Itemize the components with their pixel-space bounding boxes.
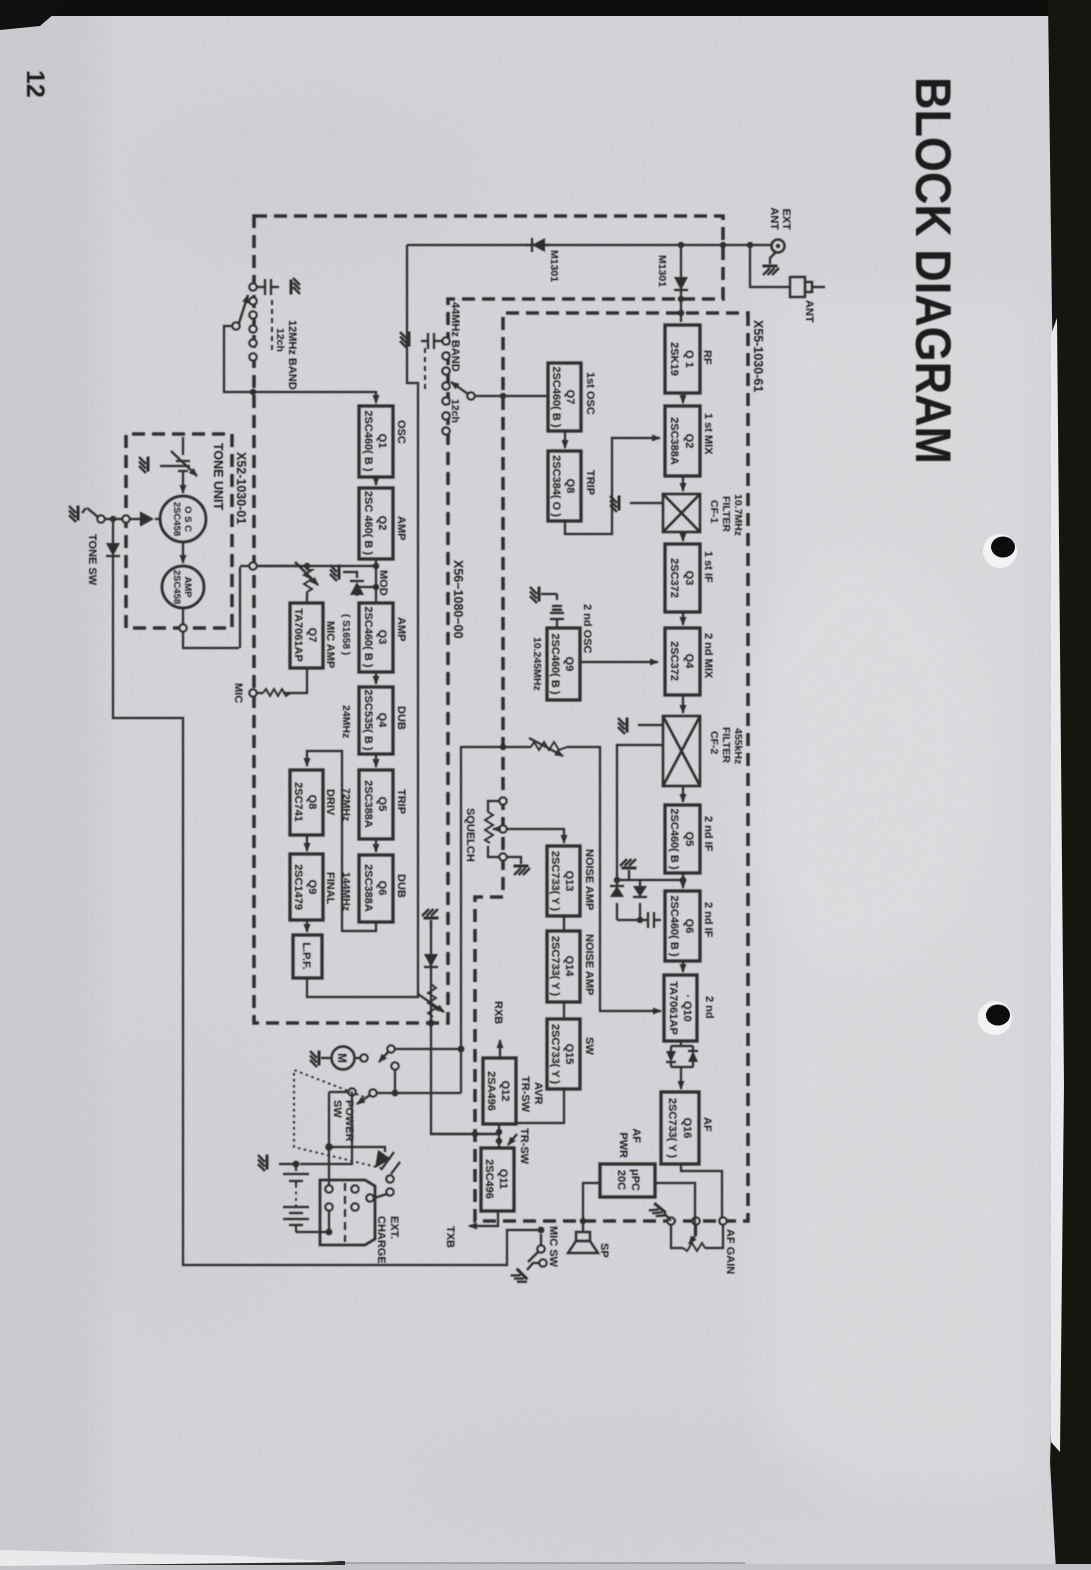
svg-text:AF: AF xyxy=(630,1128,642,1143)
block Q5 TRIP (tx) xyxy=(359,770,393,839)
svg-text:Q5: Q5 xyxy=(683,832,695,847)
modulator diode to ground xyxy=(350,581,376,596)
svg-text:2 nd IF: 2 nd IF xyxy=(702,816,714,852)
svg-text:SP: SP xyxy=(598,1243,610,1258)
capacitor + ground at 12MHz switch xyxy=(257,279,279,295)
top black scan edge xyxy=(0,0,1091,16)
svg-text:RXB: RXB xyxy=(492,1001,504,1024)
svg-text:FILTER: FILTER xyxy=(720,496,732,532)
svg-text:Q6: Q6 xyxy=(683,919,695,934)
wire Q1 to Q2 xyxy=(682,393,684,403)
svg-text:2SC741: 2SC741 xyxy=(292,782,304,822)
node ANT branch xyxy=(747,242,753,248)
transistor AMP 2SC458 xyxy=(162,566,204,608)
svg-text:Q8: Q8 xyxy=(306,795,318,810)
svg-text:AMP: AMP xyxy=(395,617,407,641)
svg-text:12MHz BAND: 12MHz BAND xyxy=(286,320,298,390)
12MHz band switch contacts xyxy=(249,283,256,360)
ganged-switch dashed link 44MHz xyxy=(424,348,426,391)
filter CF-1 xyxy=(663,494,700,532)
right dark binder strip xyxy=(1048,0,1091,1570)
svg-text:· Q10: · Q10 xyxy=(681,994,693,1022)
white page edge highlight xyxy=(1051,318,1064,1452)
dashed unit box X55-1030-61 (receiver unit) xyxy=(475,313,748,1221)
ganged-switch dashed link 12MHz xyxy=(271,300,273,354)
svg-text:SW: SW xyxy=(331,1100,343,1118)
svg-text:Q13: Q13 xyxy=(563,871,575,892)
diode on power line xyxy=(424,954,438,967)
svg-text:AF: AF xyxy=(701,1117,713,1132)
svg-text:TXB: TXB xyxy=(444,1226,456,1248)
squelch pot terminals on dashed edge xyxy=(499,797,506,860)
wire Q15 to Q12 xyxy=(516,1089,564,1123)
svg-text:M1301: M1301 xyxy=(548,250,560,282)
svg-text:2SC460( B ): 2SC460( B ) xyxy=(550,366,562,427)
long tone line to MIC SW xyxy=(113,519,538,1265)
svg-text:2SC388A: 2SC388A xyxy=(668,417,680,465)
svg-text:2SC496: 2SC496 xyxy=(483,1159,495,1199)
block Q9 2nd OSC xyxy=(547,628,580,700)
block Q6 DUB (tx) xyxy=(359,855,393,922)
diode on tone line xyxy=(106,543,120,556)
svg-text:20C: 20C xyxy=(615,1170,627,1190)
svg-text:2 nd MIX: 2 nd MIX xyxy=(702,633,714,679)
ground near diode pair xyxy=(628,870,630,880)
svg-text:455kHz: 455kHz xyxy=(732,728,744,764)
block Q14 NOISE AMP xyxy=(547,931,580,1002)
bottom page edge xyxy=(0,1564,1091,1570)
squelch line to Q10 xyxy=(500,744,506,750)
tone input terminal on box bottom edge xyxy=(122,515,129,522)
battery cells xyxy=(283,1164,309,1185)
svg-text:L.P.F.: L.P.F. xyxy=(300,942,312,969)
dashed tone unit box X52-1030-01 xyxy=(126,434,232,628)
block Q13 NOISE AMP xyxy=(547,846,580,916)
svg-text:Q 1: Q 1 xyxy=(683,350,695,368)
12MHz selector lever xyxy=(232,322,239,329)
svg-text:Q12: Q12 xyxy=(499,1081,511,1102)
svg-text:Q3: Q3 xyxy=(376,630,388,645)
svg-text:2SK19: 2SK19 xyxy=(668,342,680,376)
filter CF-2 xyxy=(663,716,700,786)
svg-text:FILTER: FILTER xyxy=(720,727,732,763)
wire Q8 injection to Q2 xyxy=(565,438,660,534)
wire Q1 to Q2 (tx) xyxy=(375,477,377,485)
resistor with arrow on power line xyxy=(428,984,436,1017)
svg-text:M: M xyxy=(335,1053,347,1063)
wire 44MHz lever to Q7 xyxy=(474,395,548,397)
svg-text:Q2: Q2 xyxy=(376,516,388,531)
svg-text:TRIP: TRIP xyxy=(395,789,407,814)
TX output line from LPF to antenna bus xyxy=(307,245,418,997)
svg-text:CHARGE: CHARGE xyxy=(375,1216,387,1264)
svg-text:44MHz BAND: 44MHz BAND xyxy=(449,302,461,372)
block Q2 1st MIX xyxy=(665,406,700,476)
wire battery loop to plug xyxy=(296,1211,329,1232)
svg-text:O S C: O S C xyxy=(182,506,193,532)
speaker SP xyxy=(582,1221,584,1232)
soft page shading xyxy=(0,0,100,1570)
svg-text:TA7061AP: TA7061AP xyxy=(292,608,304,662)
block AF PWR uPC20C xyxy=(600,1164,655,1197)
motor M xyxy=(360,1054,367,1061)
wire power sw to battery xyxy=(300,1092,352,1164)
svg-text:Q6: Q6 xyxy=(376,881,388,896)
svg-text:CF-2: CF-2 xyxy=(708,731,720,754)
svg-text:2 nd OSC: 2 nd OSC xyxy=(581,604,593,654)
wire mod tap down from chain xyxy=(257,565,376,567)
RXB arrow xyxy=(499,1040,501,1058)
block Q12 AVR TR-SW xyxy=(483,1058,516,1124)
svg-text:AMP: AMP xyxy=(182,576,193,598)
svg-text:PWR: PWR xyxy=(617,1132,629,1158)
wire Q4 to Q5 (tx) xyxy=(375,754,377,767)
svg-text:NOISE AMP: NOISE AMP xyxy=(583,849,595,910)
svg-text:Q14: Q14 xyxy=(563,956,575,978)
wire squelch edge to power line xyxy=(461,747,503,1093)
uPC input from AF GAIN wiper xyxy=(655,1183,696,1236)
svg-text:2SC535( B ): 2SC535( B ) xyxy=(362,689,374,750)
svg-text:2SC388A: 2SC388A xyxy=(362,780,374,828)
svg-text:2SC460( B ): 2SC460( B ) xyxy=(668,895,680,956)
svg-text:10.7MHz: 10.7MHz xyxy=(732,494,744,536)
ground at EXT ANT xyxy=(770,252,776,264)
wire Q12 to Q11 with junctions xyxy=(498,1124,500,1148)
svg-text:FINAL: FINAL xyxy=(324,872,336,905)
svg-text:AVR: AVR xyxy=(532,1082,544,1104)
dashed unit box X56-1080-00 with antenna column xyxy=(254,216,723,1023)
svg-text:2SC458: 2SC458 xyxy=(171,570,182,604)
svg-text:Q1: Q1 xyxy=(376,434,388,449)
svg-text:Q7: Q7 xyxy=(564,390,576,405)
svg-text:2SC372: 2SC372 xyxy=(668,558,680,598)
svg-text:2SC384( O ): 2SC384( O ) xyxy=(550,455,562,517)
AF GAIN terminals xyxy=(667,1217,726,1224)
block Q4 DUB (tx) xyxy=(359,687,393,754)
svg-text:2SA496: 2SA496 xyxy=(485,1071,497,1111)
svg-text:TR-SW: TR-SW xyxy=(518,1128,530,1165)
svg-text:OSC: OSC xyxy=(395,420,407,444)
svg-text:2 nd IF: 2 nd IF xyxy=(702,902,714,938)
Q16 output wire to AF GAIN xyxy=(681,1164,722,1218)
svg-text:MIC SW: MIC SW xyxy=(547,1226,559,1268)
44MHz band switch contacts xyxy=(442,337,449,434)
capacitor + ground at 44MHz switch xyxy=(421,333,442,349)
svg-text:TA7061AP: TA7061AP xyxy=(667,981,679,1035)
svg-text:Q4: Q4 xyxy=(376,713,388,729)
wire Q2 to Q3 (tx) with MOD taps xyxy=(375,559,377,603)
svg-text:Q4: Q4 xyxy=(683,654,695,670)
MIC SW xyxy=(538,1227,545,1234)
block Q7 1st OSC xyxy=(548,363,581,431)
wire squelch to Q13 xyxy=(506,829,564,843)
svg-text:2SC458: 2SC458 xyxy=(171,502,182,536)
svg-text:2SC733( Y ): 2SC733( Y ) xyxy=(549,936,561,996)
block Q3 1st IF xyxy=(665,544,700,612)
svg-text:EXT: EXT xyxy=(780,209,792,231)
wire 12MHz lever to Q1 osc xyxy=(224,326,376,403)
punch hole 1 xyxy=(983,534,1017,568)
block Q4 2nd MIX xyxy=(665,628,700,695)
svg-text:NOISE AMP: NOISE AMP xyxy=(583,934,595,995)
svg-text:DRIV: DRIV xyxy=(324,789,336,816)
ground at CF-1 xyxy=(630,502,663,504)
crystal at Q9 xyxy=(550,594,564,628)
svg-text:24MHz: 24MHz xyxy=(340,705,352,738)
ground at squelch xyxy=(506,857,521,864)
svg-text:TRIP: TRIP xyxy=(584,470,596,495)
EXT ANT jack xyxy=(772,240,785,253)
svg-text:ANT: ANT xyxy=(803,300,815,323)
svg-text:ANT: ANT xyxy=(768,207,780,230)
diode M1301 (to receiver) xyxy=(674,277,688,290)
ground in tone unit xyxy=(160,465,176,467)
svg-text:Q2: Q2 xyxy=(683,434,695,449)
wire Q5 to Q6 xyxy=(682,873,684,888)
node box corner crossing xyxy=(720,242,726,248)
wire CF-2 to Q5 xyxy=(682,786,684,802)
wire Q6 to Q8 driver loop xyxy=(307,751,376,931)
svg-text:X52-1030-01: X52-1030-01 xyxy=(234,452,248,524)
block Q1 OSC (tx) xyxy=(359,406,393,477)
svg-text:MIC AMP: MIC AMP xyxy=(324,621,336,668)
node RF branch xyxy=(678,242,684,248)
svg-text:MOD: MOD xyxy=(377,570,389,596)
squelch pot xyxy=(488,801,499,857)
TX power line with components xyxy=(431,920,499,1134)
svg-text:TR-SW: TR-SW xyxy=(519,1076,531,1113)
svg-text:2SC733( Y ): 2SC733( Y ) xyxy=(549,851,561,911)
tone unit output via box edge xyxy=(179,624,186,631)
svg-text:10.245MHz: 10.245MHz xyxy=(531,637,543,691)
wire CF-1 to Q3 xyxy=(682,532,684,541)
block Q11 TR-SW xyxy=(481,1148,514,1211)
svg-text:2SC388A: 2SC388A xyxy=(362,864,374,912)
wire Q7 to Q8 xyxy=(564,431,566,448)
ground at CF-2 xyxy=(638,724,663,726)
svg-text:2 nd: 2 nd xyxy=(703,996,715,1019)
svg-text:Q9: Q9 xyxy=(563,657,575,672)
TXB arrow from Q11 xyxy=(469,1211,498,1226)
44MHz selector lever xyxy=(467,392,474,399)
wire Q8 to Q9 (driver) xyxy=(306,835,308,851)
ground on power line xyxy=(430,920,432,928)
svg-text:AMP: AMP xyxy=(395,516,407,540)
power switch POWER SW xyxy=(377,1092,461,1094)
uPC output to SP xyxy=(583,1183,600,1221)
svg-text:μPC: μPC xyxy=(629,1169,641,1191)
block Q5 2nd IF xyxy=(665,805,700,873)
node TONE SW junction xyxy=(110,516,116,522)
svg-text:SW: SW xyxy=(583,1037,595,1055)
svg-text:2SC1479: 2SC1479 xyxy=(292,864,304,910)
svg-text:1 st MIX: 1 st MIX xyxy=(702,413,714,455)
svg-text:2SC460( B ): 2SC460( B ) xyxy=(362,410,374,471)
ground at crystal xyxy=(541,593,557,595)
svg-text:DUB: DUB xyxy=(395,874,407,898)
svg-text:1 st IF: 1 st IF xyxy=(702,551,714,583)
svg-text:2SC460( B ): 2SC460( B ) xyxy=(549,633,561,694)
svg-text:DUB: DUB xyxy=(395,706,407,730)
wire Q5 to Q6 (tx) xyxy=(375,839,377,852)
svg-text:2SC733( Y ): 2SC733( Y ) xyxy=(666,1098,678,1158)
wire Q3 to Q4 (tx) xyxy=(375,672,377,684)
ground near AF GAIN xyxy=(664,1213,671,1221)
svg-text:CF-1: CF-1 xyxy=(708,500,720,523)
svg-text:Q15: Q15 xyxy=(563,1044,575,1065)
wire Q9 to LPF xyxy=(306,920,308,932)
wire Q9 to Q4 xyxy=(580,661,658,663)
svg-text:Q7: Q7 xyxy=(306,628,318,643)
EXT CHARGE plug xyxy=(320,1180,375,1245)
svg-text:TONE UNIT: TONE UNIT xyxy=(211,443,225,510)
svg-text:M1301: M1301 xyxy=(656,255,668,287)
svg-text:12ch: 12ch xyxy=(274,328,286,352)
svg-text:2SC460( B ): 2SC460( B ) xyxy=(668,808,680,869)
diode M1301 (on bus) xyxy=(525,244,550,246)
block Q15 SW xyxy=(547,1019,580,1089)
motor switch branch xyxy=(458,1046,465,1053)
AF GAIN pot xyxy=(671,1225,723,1248)
wire Q3 to Q4 xyxy=(682,612,684,625)
svg-text:BLOCK DIAGRAM: BLOCK DIAGRAM xyxy=(905,77,961,464)
block Q6 2nd IF xyxy=(665,891,700,961)
svg-text:2SC733( Y ): 2SC733( Y ) xyxy=(549,1024,561,1084)
svg-text:Q3: Q3 xyxy=(683,571,695,586)
block L.P.F. xyxy=(293,935,322,978)
svg-text:MIC: MIC xyxy=(232,683,244,703)
charge diode + switch xyxy=(329,1147,385,1152)
svg-text:EXT.: EXT. xyxy=(388,1216,400,1239)
svg-text:12: 12 xyxy=(21,70,49,98)
svg-text:POWER: POWER xyxy=(343,1100,355,1142)
svg-text:TONE SW: TONE SW xyxy=(86,534,98,586)
tone enable diode below OSC xyxy=(130,512,160,526)
svg-text:Q11: Q11 xyxy=(497,1169,509,1189)
antenna bus wire xyxy=(407,244,772,246)
trimmer capacitor at tone OSC xyxy=(176,437,190,482)
MIC gain pot to mod xyxy=(306,566,308,603)
TR-SW feed line xyxy=(431,1134,517,1145)
svg-text:X56−1080−00: X56−1080−00 xyxy=(451,560,465,639)
block Q7 MIC AMP xyxy=(290,603,323,668)
wire Q6 to Q10 xyxy=(682,961,684,972)
svg-text:12ch: 12ch xyxy=(449,399,461,423)
punch hole 2 xyxy=(978,1001,1012,1035)
capacitor xyxy=(648,912,661,928)
svg-text:Q8: Q8 xyxy=(564,479,576,494)
dotted mechanical link xyxy=(294,1070,381,1168)
svg-text:SQUELCH: SQUELCH xyxy=(464,808,476,862)
diode pair xyxy=(633,886,647,897)
wire to charge plug xyxy=(328,1092,330,1185)
block Q10 2nd IF amp xyxy=(664,975,697,1041)
wire Q14 to Q15 xyxy=(563,1002,565,1019)
svg-text:( S1658 ): ( S1658 ) xyxy=(340,614,351,655)
block Q2 AMP (tx) xyxy=(359,488,393,559)
switch TONE SW xyxy=(105,518,113,520)
svg-text:Q16: Q16 xyxy=(681,1118,693,1139)
svg-text:Q9: Q9 xyxy=(306,880,318,895)
wire to ANT xyxy=(750,245,790,287)
svg-text:X55-1030-61: X55-1030-61 xyxy=(751,320,765,392)
svg-text:2SC460( B ): 2SC460( B ) xyxy=(362,606,374,667)
ground at battery xyxy=(279,1163,296,1165)
svg-text:1st OSC: 1st OSC xyxy=(584,372,596,415)
DIAGRAM (landscape, rotated 90deg CW) xyxy=(21,70,961,1287)
block Q9 FINAL xyxy=(290,854,323,920)
wire bus to RF block xyxy=(680,245,682,322)
squelch threshold pot on line xyxy=(531,742,567,750)
svg-text:Q5: Q5 xyxy=(376,797,388,812)
antenna ANT symbol xyxy=(790,277,825,297)
wire OSC to AMP xyxy=(182,542,184,563)
block Q3 AMP (tx) xyxy=(359,603,393,672)
svg-text:2SC372: 2SC372 xyxy=(668,641,680,681)
svg-text:2SC 460( B ): 2SC 460( B ) xyxy=(362,491,374,556)
detector diode pair Q10 to Q16 xyxy=(671,1041,693,1089)
tap from CF-2 xyxy=(617,745,663,880)
wire Q4 to CF-2 xyxy=(682,695,684,713)
block Q1 RF xyxy=(665,325,700,393)
svg-text:RF: RF xyxy=(701,350,713,365)
block Q8 DRIV xyxy=(290,770,323,835)
wire Q2 to CF-1 xyxy=(682,476,684,491)
block Q16 AF xyxy=(661,1092,699,1164)
wire Q13 to Q14 xyxy=(563,916,565,931)
block Q8 TRIP xyxy=(548,451,581,521)
svg-text:AF GAIN: AF GAIN xyxy=(724,1229,736,1274)
transistor OSC 2SC458 xyxy=(160,496,206,542)
rail from Q5/Q6 node xyxy=(617,880,683,920)
